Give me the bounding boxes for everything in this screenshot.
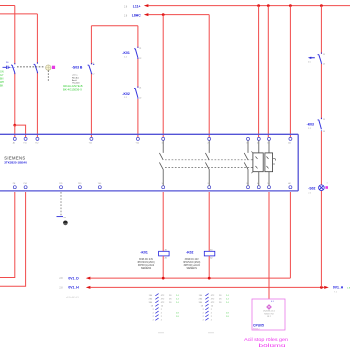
wire below contact S03.1 to junction — [14, 73, 16, 125]
wire terminal 14 down to coil K01 — [162, 192, 164, 252]
wire below coil K01 — [162, 256, 164, 278]
svg-text:SIEMENS: SIEMENS — [187, 268, 198, 270]
svg-text:A2: A2 — [288, 182, 290, 185]
wire L2 incoming top-left — [0, 13, 37, 15]
interruption arrow L8HC — [144, 13, 149, 16]
svg-text:A1: A1 — [210, 249, 212, 252]
svg-text:=115+RO-X1: =115+RO-X1 — [66, 297, 80, 299]
svg-text:1: 1 — [327, 183, 328, 185]
wire below contact S03.2 to terminal Y12 — [36, 72, 38, 137]
top terminals — [13, 137, 292, 140]
node on L11+ at x268.3 — [267, 4, 270, 7]
safety relay box bottom edge — [0, 190, 298, 192]
wire feedback left leg above contact S03B — [90, 26, 92, 65]
svg-text:A1: A1 — [13, 142, 15, 145]
node on L8HC at x163 — [162, 13, 165, 16]
safety relay box top edge — [0, 133, 298, 135]
svg-text:21: 21 — [139, 48, 141, 50]
table footer marks — [158, 332, 214, 334]
svg-text:0V1_H: 0V1_H — [333, 286, 344, 290]
svg-text:Y39: Y39 — [78, 183, 81, 185]
svg-text:-K01: -K01 — [140, 251, 147, 255]
internal contact 23-24 — [205, 140, 209, 185]
mechanical link dashes — [17, 66, 45, 68]
internal relay coil K1 — [253, 153, 263, 172]
wire feedback right leg to contact K01 — [137, 26, 139, 48]
CPU05 PLC box — [252, 299, 285, 330]
e-stop mushroom head — [46, 65, 51, 70]
wire below coil K02 — [208, 256, 210, 278]
svg-text:Aceli: Aceli — [72, 79, 77, 82]
wire feedback loop horizontal — [91, 25, 137, 27]
svg-text:0V1_D: 0V1_D — [68, 276, 79, 280]
svg-text:14: 14 — [323, 64, 325, 66]
svg-text:Y22: Y22 — [136, 143, 139, 145]
node K02 on 0V1_D — [208, 277, 211, 280]
wire right rail lower segment — [320, 190, 322, 287]
wire L11+ rail — [148, 5, 350, 7]
svg-text:Y34: Y34 — [23, 183, 26, 185]
wire 0V1_H rail — [90, 286, 324, 288]
svg-text:bölümü: bölümü — [259, 343, 286, 349]
reset dashed line below box — [60, 192, 62, 216]
svg-text:3K96 DC 24V: 3K96 DC 24V — [185, 259, 200, 261]
wire down x268.3 to terminal 43 — [267, 6, 269, 138]
PLC input diamond — [267, 305, 271, 309]
internal contact 33-34 — [244, 140, 248, 185]
svg-text:A2: A2 — [165, 257, 167, 260]
wire terminal A2 down to 0V1_D — [289, 192, 291, 278]
node on L11+ at x290.4 — [289, 4, 292, 7]
wire vertical to contact S03.2 — [36, 14, 38, 64]
emergency stop S03 contact 1 — [11, 65, 15, 73]
wire right rail to connector — [320, 131, 322, 185]
svg-text:L8HC: L8HC — [132, 14, 141, 18]
svg-text:Y12: Y12 — [35, 143, 38, 145]
internal relay coil K2 — [265, 153, 273, 172]
actuator dashes below mushroom — [47, 71, 49, 82]
wire between contacts K01 K02 — [137, 58, 139, 88]
svg-text:-K03: -K03 — [307, 122, 314, 126]
svg-text:Y35: Y35 — [59, 183, 62, 185]
svg-text:3RH/O(1)-2AU2: 3RH/O(1)-2AU2 — [184, 264, 201, 267]
node on L11+ at x258.6 — [257, 4, 260, 7]
wire 0V1_D rail — [90, 277, 290, 279]
svg-text:Y11: Y11 — [23, 143, 26, 145]
node on L11+ at x321.4 — [320, 4, 323, 7]
svg-text:13: 13 — [323, 54, 325, 56]
svg-text:res: res — [64, 216, 67, 219]
svg-text:-S02: -S02 — [308, 186, 315, 190]
wire below contact S03B to terminal Y21 — [90, 73, 92, 138]
svg-text:22: 22 — [139, 98, 141, 100]
wire down x258.6 to terminal 33 — [258, 6, 260, 138]
safety relay box right edge — [297, 134, 299, 191]
svg-text:13: 13 — [323, 119, 325, 121]
wire down x209 to terminal 23 — [208, 15, 210, 138]
top terminal pin labels — [13, 142, 291, 145]
bottom terminal pin labels — [13, 182, 291, 185]
svg-text:A1: A1 — [288, 142, 290, 145]
svg-text:-S03 B: -S03 B — [72, 65, 83, 69]
node right rail on 0V1_H — [320, 286, 323, 289]
magenta marker — [52, 66, 55, 69]
svg-text:Acil stop röles gen: Acil stop röles gen — [244, 337, 288, 343]
wire L1 incoming top-left — [0, 5, 15, 7]
svg-text:-K02: -K02 — [122, 92, 129, 96]
svg-text:Y21: Y21 — [89, 143, 92, 145]
svg-text:3K96 DC 24V: 3K96 DC 24V — [139, 259, 154, 261]
svg-text:-K02: -K02 — [186, 251, 193, 255]
emergency stop S03 contact 2 — [34, 64, 38, 72]
contact K02b on right rail — [318, 55, 322, 63]
wire vertical from L1 corner down to contact S03.1 — [14, 6, 16, 65]
svg-text:0V1_H: 0V1_H — [68, 286, 79, 290]
svg-text:BK-4G15036-X: BK-4G15036-X — [63, 88, 82, 92]
svg-text:CPU05: CPU05 — [253, 323, 264, 327]
node K01 on 0V1_D — [162, 277, 165, 280]
svg-text:3TK2825-1BB40: 3TK2825-1BB40 — [4, 161, 27, 165]
svg-text:3PO/S/C9 (2NO): 3PO/S/C9 (2NO) — [137, 262, 154, 264]
svg-text:BK: BK — [0, 85, 4, 88]
wire branch to terminal Y11 — [15, 125, 26, 137]
contact cross-ref table K02 — [199, 295, 223, 322]
svg-text:KM03 / R2: KM03 / R2 — [264, 313, 274, 315]
reset button glyph — [57, 216, 64, 218]
wire terminal 54 down to CPU box — [268, 192, 270, 305]
svg-text:=115+: =115+ — [72, 75, 79, 77]
contact cross-ref table K01 — [149, 295, 173, 322]
svg-text:-K01: -K01 — [122, 51, 129, 55]
svg-text:3PO/S/C9 (2NO): 3PO/S/C9 (2NO) — [183, 262, 200, 264]
interruption arrow L11+ — [144, 4, 149, 7]
svg-text:3RH/O(1)-2AU2: 3RH/O(1)-2AU2 — [138, 264, 155, 267]
wire below contact K02 to terminal Y22 — [137, 99, 139, 138]
svg-text:14: 14 — [323, 131, 325, 133]
svg-text:12: 12 — [92, 74, 94, 76]
wire from terminal A1-left down-left — [0, 192, 15, 278]
svg-text:SIEMENS: SIEMENS — [141, 268, 152, 270]
wire through coil K2 — [268, 140, 270, 185]
svg-text:21: 21 — [139, 88, 141, 90]
wire L8HC rail — [148, 14, 209, 16]
internal contact 13-14 — [159, 140, 163, 185]
svg-text:A1: A1 — [165, 249, 167, 252]
svg-text:22: 22 — [139, 58, 141, 60]
svg-text:Y40: Y40 — [98, 183, 101, 185]
bottom terminals — [13, 186, 292, 189]
wire down x290.4 to terminal A1 right — [289, 6, 291, 138]
wire terminal 24 down to coil K02 — [208, 192, 210, 252]
wire through coil K1 — [258, 140, 260, 185]
wire right rail between contacts — [320, 64, 322, 119]
wire stub into terminal A1 — [14, 125, 16, 137]
wire down x321.4 to contact K02b — [320, 6, 322, 54]
cross-reference arrow mid-right — [308, 57, 315, 59]
svg-text:KM03.2: KM03.2 — [253, 328, 260, 330]
node junction at x15 y125 — [13, 124, 16, 127]
svg-text:11: 11 — [92, 63, 94, 65]
wire from terminal Y34 down-left — [0, 192, 26, 286]
svg-text:A2: A2 — [210, 257, 212, 260]
internal mechanism dashed links — [165, 159, 253, 161]
wire down x163 to terminal 13 — [162, 15, 164, 138]
interruption arrow 0V1_H right — [324, 286, 329, 289]
svg-text:L11+: L11+ — [133, 5, 141, 9]
svg-text:1KZ0M1.04.1: 1KZ0M1.04.1 — [263, 311, 276, 313]
